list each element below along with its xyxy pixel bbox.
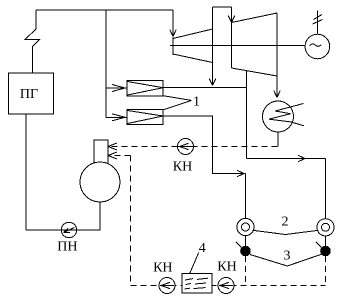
- svg-text:4: 4: [199, 241, 206, 256]
- svg-text:1: 1: [193, 95, 200, 110]
- svg-text:КН: КН: [153, 260, 172, 275]
- svg-text:2: 2: [282, 214, 289, 229]
- svg-text:3: 3: [284, 248, 291, 263]
- svg-text:КН: КН: [173, 160, 192, 175]
- svg-text:КН: КН: [217, 260, 236, 275]
- svg-text:ПГ: ПГ: [20, 87, 38, 102]
- svg-text:ПН: ПН: [57, 240, 77, 255]
